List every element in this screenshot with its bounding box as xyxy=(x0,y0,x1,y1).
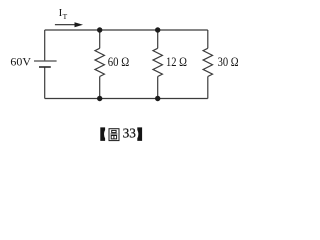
svg-text:T: T xyxy=(63,12,68,21)
svg-text:60 Ω: 60 Ω xyxy=(108,54,129,69)
svg-text:60V: 60V xyxy=(10,55,31,69)
svg-text:12 Ω: 12 Ω xyxy=(166,54,187,69)
svg-text:33: 33 xyxy=(123,126,137,141)
svg-text:30 Ω: 30 Ω xyxy=(218,54,239,69)
